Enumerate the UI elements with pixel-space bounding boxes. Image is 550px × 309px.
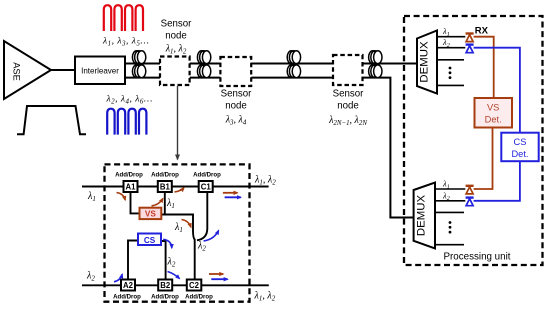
- svg-text:A1: A1: [126, 183, 137, 192]
- arrow VS to B1: [152, 199, 163, 206]
- svg-text:Sensor: Sensor: [221, 89, 252, 100]
- sensor node 1 label: [161, 19, 192, 56]
- sensor node 2 label: [221, 89, 252, 127]
- add/drop A2: [121, 280, 135, 291]
- svg-text:VS: VS: [487, 103, 499, 113]
- CS unit: [138, 234, 161, 246]
- svg-text:B1: B1: [160, 183, 171, 192]
- wire A2 to CS: [128, 241, 138, 281]
- VS unit: [140, 208, 162, 219]
- svg-text:Sensor: Sensor: [333, 89, 364, 100]
- wire CS Det to RX4: [474, 161, 520, 201]
- wire junction to C2: [194, 239, 196, 280]
- CS Det: [501, 133, 538, 162]
- wire B1 drop: [164, 192, 166, 215]
- arrow out top blue: [225, 196, 241, 198]
- fiber coil pair 3: [287, 51, 300, 64]
- sensor node 1: [160, 57, 190, 86]
- bus bottom line segments: [125, 78, 414, 218]
- svg-text:Processing unit: Processing unit: [444, 251, 511, 262]
- arrow into B2: [168, 272, 180, 279]
- svg-text:Sensor: Sensor: [161, 19, 192, 30]
- bus top line segments: [125, 63, 417, 65]
- arrow drop at A1: [117, 193, 126, 201]
- red wavelength comb: [104, 5, 143, 31]
- amplifier ASE: [4, 41, 51, 99]
- svg-text:DEMUX: DEMUX: [419, 41, 431, 83]
- svg-text:ASE: ASE: [12, 62, 22, 81]
- VS Det: [475, 98, 513, 128]
- wire VS Det to RX3: [474, 128, 493, 190]
- arrow out top red: [223, 192, 238, 194]
- arrow lambda2 up to C1: [204, 231, 219, 242]
- arrow CS down: [163, 239, 172, 248]
- demux U2 output lines: [435, 189, 465, 245]
- svg-text:RX: RX: [475, 25, 489, 36]
- svg-text:node: node: [337, 101, 359, 112]
- svg-text:node: node: [165, 31, 187, 42]
- arrow lambda1 down to junction: [182, 220, 192, 228]
- blue wavelength comb: [107, 109, 146, 135]
- arrow after B1: [175, 188, 185, 192]
- svg-text:C1: C1: [201, 183, 212, 192]
- svg-text:CS: CS: [514, 137, 527, 147]
- svg-text:B2: B2: [160, 281, 171, 290]
- processing unit box: [404, 16, 543, 265]
- wire CS to B2: [161, 241, 166, 280]
- svg-text:Interleaver: Interleaver: [81, 67, 119, 76]
- sensor node 3 label: [328, 89, 367, 127]
- add/drop C2: [187, 280, 202, 291]
- wire RX2 to CS Det: [474, 48, 520, 133]
- svg-text:CS: CS: [144, 236, 156, 245]
- inset sensor node box: [105, 164, 250, 301]
- svg-text:C2: C2: [189, 281, 200, 290]
- interleaver: [75, 57, 125, 85]
- inset top bus: [82, 186, 269, 188]
- wire ASE to interleaver: [51, 69, 75, 71]
- photodiode RX2 (blue): [466, 45, 474, 53]
- add/drop B1: [158, 181, 172, 192]
- add/drop A1: [124, 181, 138, 192]
- demux U2: [414, 183, 435, 249]
- inset bottom bus: [82, 284, 269, 286]
- demux U1 dots: [449, 67, 452, 79]
- wire RX1 to VS Det: [474, 37, 494, 98]
- fiber coil pair 2: [197, 51, 210, 64]
- pulse waveform: [17, 106, 86, 134]
- photodiode RX1 (red): [466, 34, 474, 42]
- svg-text:node: node: [225, 101, 247, 112]
- wire VS to junction: [161, 215, 195, 240]
- arrow node1 to inset: [177, 86, 179, 160]
- svg-text:Add/Drop: Add/Drop: [113, 293, 141, 300]
- sensor node 2: [220, 57, 251, 86]
- svg-text:Add/Drop: Add/Drop: [151, 293, 179, 300]
- sensor node 3: [333, 55, 363, 85]
- svg-text:Add/Drop: Add/Drop: [185, 293, 213, 300]
- wire C1 to junction: [197, 192, 207, 240]
- arrow out bottom red: [209, 273, 223, 275]
- wire A1 to VS: [131, 192, 140, 213]
- fiber coil pair 1: [132, 51, 145, 64]
- arrow drop at A2: [114, 274, 122, 282]
- demux U1 output lines: [437, 37, 465, 86]
- arrow out bottom blue: [211, 278, 227, 280]
- svg-text:DEMUX: DEMUX: [415, 195, 427, 237]
- demux U2 dots: [449, 221, 452, 233]
- svg-text:Add/Drop: Add/Drop: [115, 172, 143, 179]
- svg-text:Det.: Det.: [485, 115, 502, 125]
- add/drop C1: [199, 181, 213, 192]
- photodiode RX3 (red): [466, 186, 474, 194]
- svg-text:A2: A2: [123, 281, 134, 290]
- demux U1: [417, 31, 437, 94]
- photodiode RX4 (blue): [466, 198, 474, 206]
- fiber coil pair 4: [369, 51, 382, 64]
- svg-text:Add/Drop: Add/Drop: [193, 172, 221, 179]
- svg-text:Det.: Det.: [511, 149, 528, 159]
- add/drop B2: [158, 280, 172, 291]
- svg-text:VS: VS: [145, 210, 156, 219]
- svg-text:Add/Drop: Add/Drop: [151, 172, 179, 179]
